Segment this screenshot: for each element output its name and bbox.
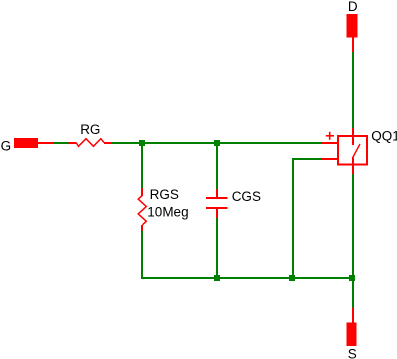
wire QQ1 lower-left vertical <box>292 158 294 279</box>
svg-text:QQ1: QQ1 <box>371 128 397 143</box>
junction node at RG/RGS <box>139 140 145 146</box>
pin G block <box>14 138 38 148</box>
pin D stub <box>352 37 354 52</box>
svg-text:RGS: RGS <box>150 187 179 202</box>
switch QQ1 left-bottom pin <box>322 158 338 160</box>
junction node below QQ1 left wire <box>289 275 295 281</box>
capacitor CGS top stub <box>216 189 218 198</box>
resistor RGS zigzag <box>138 195 146 225</box>
resistor RGS lead bottom <box>141 225 143 231</box>
junction node at CGS bottom <box>214 275 220 281</box>
switch QQ1 body box <box>338 136 367 165</box>
resistor RG zigzag <box>76 139 104 147</box>
capacitor CGS bottom stub <box>216 208 218 218</box>
resistor RGS lead top <box>141 188 143 195</box>
svg-text:G: G <box>1 139 12 154</box>
switch QQ1 top pin <box>352 128 354 145</box>
resistor RG lead left <box>69 142 77 144</box>
capacitor CGS top plate <box>206 197 228 199</box>
wire RGS bottom lead <box>141 230 143 279</box>
pin S stub <box>352 308 354 324</box>
capacitor CGS bottom plate <box>206 207 228 209</box>
wire CGS top lead <box>216 143 218 190</box>
pin S block <box>347 323 357 347</box>
junction node at CGS top <box>214 140 220 146</box>
svg-text:10Meg: 10Meg <box>147 205 188 220</box>
wire QQ1 lower-left horizontal <box>292 158 323 160</box>
svg-text:RG: RG <box>80 122 100 137</box>
switch QQ1 bottom pin <box>352 158 354 175</box>
switch QQ1 left-top pin <box>322 142 338 144</box>
switch QQ1 arm <box>353 144 361 158</box>
wire RGS top lead <box>141 143 143 189</box>
resistor RG lead right <box>104 142 112 144</box>
wire G pin to RG <box>53 142 69 144</box>
svg-text:D: D <box>348 0 358 14</box>
wire junction to S pin <box>352 277 354 308</box>
plus polarity mark horizontal <box>326 135 334 137</box>
wire RG to QQ1 left-top pin <box>111 142 322 144</box>
plus polarity mark vertical <box>329 132 331 140</box>
wire bottom bus <box>141 277 354 279</box>
pin D block <box>347 14 358 38</box>
junction node at S wire <box>349 275 355 281</box>
pin G stub <box>38 142 53 144</box>
wire QQ1 bottom to junction <box>352 174 354 279</box>
svg-text:CGS: CGS <box>232 189 261 204</box>
wire CGS bottom lead <box>216 217 218 279</box>
svg-text:S: S <box>348 347 357 359</box>
wire D pin to QQ1 top <box>352 52 354 128</box>
